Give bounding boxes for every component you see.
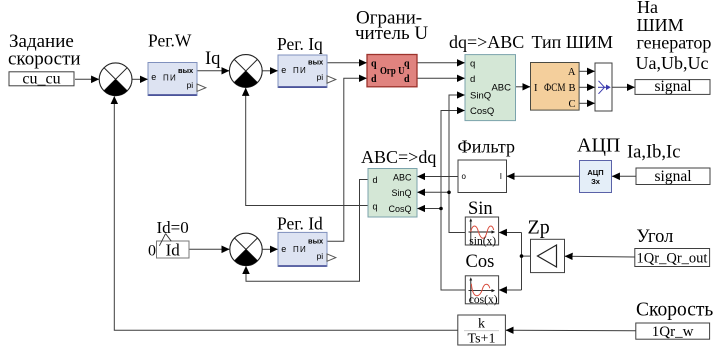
svg-text:I: I — [534, 83, 538, 94]
svg-text:е: е — [281, 244, 286, 254]
svg-text:ПИ: ПИ — [293, 66, 307, 75]
svg-text:1Qr_Qr_out: 1Qr_Qr_out — [637, 250, 708, 266]
svg-text:ПИ: ПИ — [163, 73, 177, 82]
svg-text:Ts+1: Ts+1 — [468, 332, 496, 347]
svg-text:pi: pi — [317, 72, 324, 82]
svg-text:вых: вых — [178, 66, 194, 75]
svg-text:АЦП: АЦП — [577, 135, 620, 157]
svg-text:q: q — [371, 59, 377, 70]
svg-text:Ia,Ib,Ic: Ia,Ib,Ic — [627, 143, 680, 163]
svg-text:cu_cu: cu_cu — [22, 71, 60, 88]
svg-text:е: е — [281, 65, 286, 75]
svg-text:SinQ: SinQ — [391, 188, 411, 198]
svg-text:pi: pi — [317, 251, 324, 261]
svg-text:pi: pi — [187, 80, 194, 90]
svg-text:Рег.W: Рег.W — [148, 31, 192, 51]
svg-text:Зх: Зх — [591, 177, 601, 186]
svg-text:Тип ШИМ: Тип ШИМ — [532, 32, 613, 52]
svg-text:скорости: скорости — [8, 49, 81, 70]
svg-text:Id=0: Id=0 — [157, 218, 189, 237]
svg-text:е: е — [151, 72, 156, 82]
svg-text:CosQ: CosQ — [388, 204, 411, 214]
svg-text:ABC: ABC — [393, 172, 412, 182]
svg-text:Скорость: Скорость — [636, 300, 713, 321]
svg-text:АЦП: АЦП — [587, 168, 603, 177]
svg-text:Cos: Cos — [466, 252, 495, 272]
svg-text:читель U: читель U — [355, 23, 428, 44]
svg-text:signal: signal — [654, 168, 691, 185]
svg-text:Iq: Iq — [205, 49, 220, 69]
svg-text:Огр U: Огр U — [380, 66, 405, 77]
svg-text:Id: Id — [166, 241, 181, 260]
svg-text:q: q — [404, 59, 410, 70]
svg-text:SinQ: SinQ — [470, 90, 491, 101]
svg-text:A: A — [568, 67, 576, 78]
svg-text:CosQ: CosQ — [470, 106, 494, 117]
svg-text:d: d — [373, 175, 378, 185]
svg-text:Рег. Iq: Рег. Iq — [277, 34, 323, 54]
svg-text:d: d — [470, 74, 475, 85]
svg-text:sin(x): sin(x) — [469, 235, 496, 247]
svg-text:вых: вых — [308, 57, 324, 66]
svg-text:q: q — [470, 58, 475, 69]
svg-text:ABC: ABC — [491, 82, 511, 93]
svg-text:ФСМ: ФСМ — [544, 82, 566, 94]
svg-text:Ua,Ub,Uc: Ua,Ub,Uc — [636, 53, 709, 73]
svg-text:C: C — [568, 99, 575, 110]
svg-text:ПИ: ПИ — [293, 245, 307, 254]
svg-text:ABC=>dq: ABC=>dq — [361, 147, 436, 167]
svg-text:1Qr_w: 1Qr_w — [652, 324, 694, 340]
svg-text:o: o — [462, 172, 467, 181]
svg-text:k: k — [478, 317, 485, 332]
svg-text:Рег. Id: Рег. Id — [277, 214, 323, 234]
svg-text:q: q — [373, 202, 378, 212]
svg-text:d: d — [371, 74, 377, 85]
svg-text:d: d — [404, 74, 410, 85]
svg-text:0: 0 — [148, 243, 156, 260]
svg-text:Zp: Zp — [528, 217, 550, 239]
svg-text:B: B — [568, 83, 575, 94]
svg-text:Sin: Sin — [468, 199, 493, 219]
svg-text:Угол: Угол — [637, 227, 674, 247]
svg-text:вых: вых — [308, 237, 324, 246]
svg-text:signal: signal — [654, 78, 691, 95]
svg-text:Фильтр: Фильтр — [458, 137, 515, 157]
svg-text:генератор: генератор — [637, 33, 712, 53]
svg-text:dq=>ABC: dq=>ABC — [449, 32, 524, 52]
svg-text:cos(x): cos(x) — [469, 294, 498, 306]
svg-text:I: I — [500, 172, 502, 181]
